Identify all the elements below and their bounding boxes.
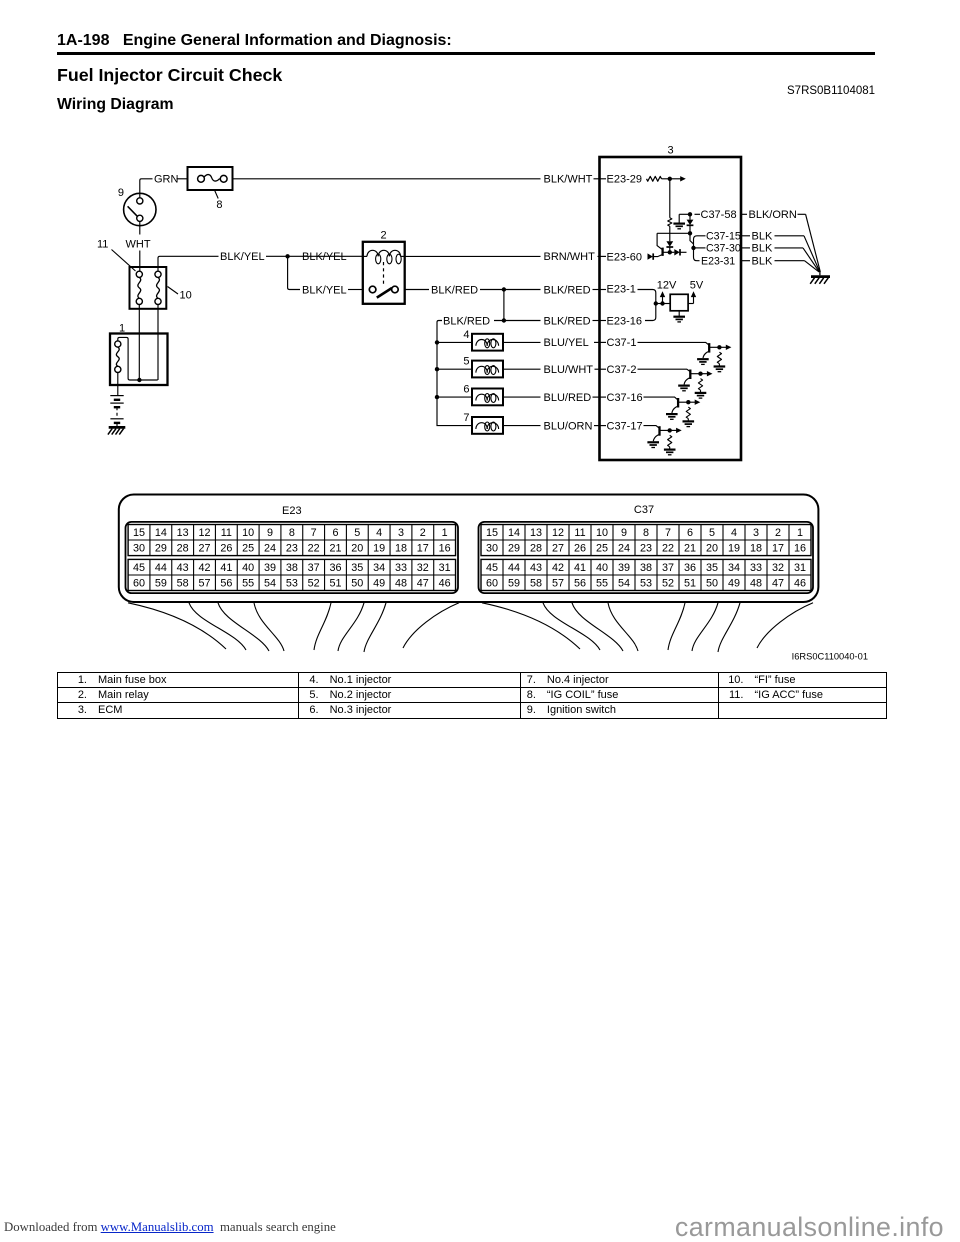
svg-text:BLK/WHT: BLK/WHT [544, 174, 593, 186]
svg-text:24: 24 [264, 543, 276, 555]
svg-text:11: 11 [221, 527, 232, 539]
svg-text:BLU/WHT: BLU/WHT [544, 364, 594, 376]
svg-text:39: 39 [264, 562, 276, 574]
svg-text:18: 18 [395, 543, 407, 555]
svg-text:19: 19 [373, 543, 385, 555]
svg-text:7: 7 [463, 412, 469, 424]
svg-text:36: 36 [329, 562, 341, 574]
svg-text:GRN: GRN [154, 174, 179, 186]
svg-text:56: 56 [574, 578, 586, 590]
svg-text:BRN/WHT: BRN/WHT [544, 251, 596, 263]
svg-text:2: 2 [420, 527, 426, 539]
svg-text:2: 2 [380, 230, 386, 242]
svg-text:36: 36 [684, 562, 696, 574]
svg-text:52: 52 [662, 578, 674, 590]
svg-text:BLU/ORN: BLU/ORN [544, 420, 593, 432]
svg-text:C37-2: C37-2 [607, 364, 637, 376]
svg-text:BLK/RED: BLK/RED [443, 315, 490, 327]
svg-text:6: 6 [463, 384, 469, 396]
svg-text:E23-31: E23-31 [701, 256, 735, 268]
svg-text:49: 49 [728, 578, 740, 590]
svg-text:I6RS0C110040-01: I6RS0C110040-01 [792, 652, 868, 662]
svg-text:1: 1 [119, 323, 125, 335]
svg-text:8: 8 [289, 527, 295, 539]
svg-text:BLK/ORN: BLK/ORN [749, 209, 797, 221]
svg-text:47: 47 [772, 578, 784, 590]
svg-text:55: 55 [596, 578, 608, 590]
svg-text:26: 26 [220, 543, 232, 555]
svg-text:31: 31 [794, 562, 806, 574]
svg-text:26: 26 [574, 543, 586, 555]
svg-text:33: 33 [750, 562, 762, 574]
svg-text:3: 3 [667, 145, 673, 157]
svg-text:23: 23 [640, 543, 652, 555]
svg-text:21: 21 [684, 543, 696, 555]
svg-text:35: 35 [706, 562, 718, 574]
svg-text:BLU/RED: BLU/RED [544, 392, 592, 404]
svg-text:28: 28 [530, 543, 542, 555]
svg-text:57: 57 [198, 578, 210, 590]
svg-text:BLK/RED: BLK/RED [544, 315, 591, 327]
svg-text:17: 17 [772, 543, 784, 555]
svg-text:22: 22 [662, 543, 674, 555]
svg-text:6: 6 [687, 527, 693, 539]
svg-text:5V: 5V [690, 279, 704, 291]
svg-text:1: 1 [797, 527, 803, 539]
svg-text:40: 40 [596, 562, 608, 574]
svg-text:WHT: WHT [126, 239, 151, 251]
svg-text:12V: 12V [657, 279, 677, 291]
svg-text:42: 42 [552, 562, 564, 574]
svg-text:52: 52 [308, 578, 320, 590]
svg-text:16: 16 [794, 543, 806, 555]
svg-text:28: 28 [177, 543, 189, 555]
svg-text:40: 40 [242, 562, 254, 574]
svg-text:30: 30 [133, 543, 145, 555]
svg-text:E23-60: E23-60 [607, 251, 642, 263]
svg-text:37: 37 [308, 562, 320, 574]
svg-text:4: 4 [731, 527, 737, 539]
svg-text:51: 51 [684, 578, 696, 590]
svg-text:44: 44 [155, 562, 167, 574]
svg-text:1: 1 [442, 527, 448, 539]
svg-text:11: 11 [574, 527, 585, 539]
svg-text:23: 23 [286, 543, 298, 555]
svg-text:10: 10 [242, 527, 254, 539]
svg-text:34: 34 [728, 562, 740, 574]
svg-text:38: 38 [640, 562, 652, 574]
svg-text:12: 12 [552, 527, 564, 539]
svg-text:49: 49 [373, 578, 385, 590]
svg-text:E23-1: E23-1 [607, 283, 636, 295]
svg-text:54: 54 [618, 578, 630, 590]
svg-text:56: 56 [220, 578, 232, 590]
svg-text:22: 22 [308, 543, 320, 555]
svg-text:29: 29 [155, 543, 167, 555]
svg-text:27: 27 [198, 543, 210, 555]
svg-text:4: 4 [376, 527, 382, 539]
svg-text:18: 18 [750, 543, 762, 555]
svg-text:5: 5 [709, 527, 715, 539]
svg-text:BLK/YEL: BLK/YEL [302, 251, 347, 263]
svg-text:51: 51 [329, 578, 341, 590]
svg-text:5: 5 [354, 527, 360, 539]
svg-text:53: 53 [286, 578, 298, 590]
svg-text:58: 58 [530, 578, 542, 590]
svg-text:59: 59 [155, 578, 167, 590]
svg-text:45: 45 [486, 562, 498, 574]
svg-text:53: 53 [640, 578, 652, 590]
svg-text:20: 20 [351, 543, 363, 555]
svg-text:55: 55 [242, 578, 254, 590]
svg-text:60: 60 [133, 578, 145, 590]
svg-text:57: 57 [552, 578, 564, 590]
svg-text:8: 8 [643, 527, 649, 539]
svg-text:15: 15 [133, 527, 145, 539]
svg-text:BLU/YEL: BLU/YEL [544, 337, 589, 349]
svg-text:43: 43 [530, 562, 542, 574]
svg-text:9: 9 [118, 187, 124, 199]
svg-text:50: 50 [706, 578, 718, 590]
svg-text:BLK/YEL: BLK/YEL [220, 251, 265, 263]
svg-text:17: 17 [417, 543, 429, 555]
svg-text:19: 19 [728, 543, 740, 555]
svg-text:3: 3 [398, 527, 404, 539]
svg-text:35: 35 [351, 562, 363, 574]
svg-text:BLK/RED: BLK/RED [431, 284, 478, 296]
svg-text:BLK/RED: BLK/RED [544, 284, 591, 296]
svg-text:E23-29: E23-29 [607, 174, 642, 186]
svg-text:25: 25 [596, 543, 608, 555]
svg-text:E23: E23 [282, 505, 302, 517]
svg-text:C37-15: C37-15 [706, 231, 741, 243]
svg-text:C37-16: C37-16 [607, 392, 643, 404]
svg-text:7: 7 [311, 527, 317, 539]
svg-text:10: 10 [180, 290, 192, 302]
svg-text:33: 33 [395, 562, 407, 574]
svg-text:BLK: BLK [752, 256, 773, 268]
svg-text:13: 13 [530, 527, 542, 539]
svg-text:34: 34 [373, 562, 385, 574]
svg-text:21: 21 [329, 543, 341, 555]
svg-text:38: 38 [286, 562, 298, 574]
svg-text:C37: C37 [634, 504, 654, 516]
svg-text:2: 2 [775, 527, 781, 539]
svg-text:47: 47 [417, 578, 429, 590]
svg-text:C37-1: C37-1 [607, 337, 637, 349]
svg-text:48: 48 [750, 578, 762, 590]
svg-text:31: 31 [439, 562, 451, 574]
svg-text:41: 41 [574, 562, 586, 574]
svg-text:20: 20 [706, 543, 718, 555]
svg-text:39: 39 [618, 562, 630, 574]
svg-text:BLK: BLK [752, 243, 773, 255]
svg-text:3: 3 [753, 527, 759, 539]
svg-text:42: 42 [198, 562, 210, 574]
svg-text:27: 27 [552, 543, 564, 555]
svg-text:14: 14 [155, 527, 167, 539]
svg-text:50: 50 [351, 578, 363, 590]
svg-text:5: 5 [463, 356, 469, 368]
svg-text:60: 60 [486, 578, 498, 590]
svg-text:24: 24 [618, 543, 630, 555]
svg-text:32: 32 [772, 562, 784, 574]
svg-text:14: 14 [508, 527, 520, 539]
svg-text:C37-58: C37-58 [701, 209, 737, 221]
svg-text:6: 6 [332, 527, 338, 539]
svg-text:BLK: BLK [752, 231, 773, 243]
svg-text:10: 10 [596, 527, 608, 539]
svg-text:44: 44 [508, 562, 520, 574]
svg-text:C37-17: C37-17 [607, 420, 643, 432]
svg-text:C37-30: C37-30 [706, 243, 741, 255]
svg-text:7: 7 [665, 527, 671, 539]
svg-text:15: 15 [486, 527, 498, 539]
svg-text:45: 45 [133, 562, 145, 574]
svg-text:E23-16: E23-16 [607, 315, 642, 327]
svg-text:43: 43 [177, 562, 189, 574]
svg-text:58: 58 [177, 578, 189, 590]
svg-text:32: 32 [417, 562, 429, 574]
svg-text:4: 4 [463, 329, 469, 341]
svg-text:25: 25 [242, 543, 254, 555]
svg-text:41: 41 [220, 562, 232, 574]
svg-text:9: 9 [621, 527, 627, 539]
svg-text:11: 11 [97, 239, 108, 251]
svg-text:29: 29 [508, 543, 520, 555]
svg-text:46: 46 [439, 578, 451, 590]
svg-text:8: 8 [216, 199, 222, 211]
svg-text:37: 37 [662, 562, 674, 574]
svg-text:13: 13 [177, 527, 189, 539]
svg-text:9: 9 [267, 527, 273, 539]
svg-text:16: 16 [439, 543, 451, 555]
svg-text:59: 59 [508, 578, 520, 590]
svg-text:30: 30 [486, 543, 498, 555]
svg-text:12: 12 [198, 527, 210, 539]
svg-text:46: 46 [794, 578, 806, 590]
svg-text:54: 54 [264, 578, 276, 590]
svg-text:BLK/YEL: BLK/YEL [302, 284, 347, 296]
svg-text:48: 48 [395, 578, 407, 590]
